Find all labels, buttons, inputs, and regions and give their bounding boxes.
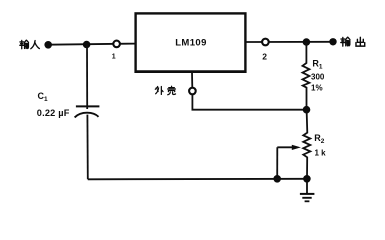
node: junction R1 / R2 / case wire [303, 106, 311, 114]
node: junction R2 / ground [303, 175, 311, 183]
svg-text:C1: C1 [38, 91, 49, 103]
svg-text:300: 300 [311, 73, 325, 82]
node: junction wiper / ground rail [273, 175, 281, 183]
wire: wiper return to ground rail [276, 147, 278, 179]
ground [300, 179, 315, 202]
wire: ground rail [88, 178, 307, 181]
wire: input rail to LM109 pin 1 [48, 44, 136, 45]
potentiometer R2 [303, 110, 310, 179]
wire: C1 bottom plate to ground rail [86, 115, 88, 180]
svg-text:1: 1 [112, 54, 116, 61]
svg-text:1 k: 1 k [315, 149, 327, 158]
svg-text:LM109: LM109 [175, 37, 207, 48]
node: output terminal [329, 38, 336, 45]
regulator U1 LM109 box [136, 13, 246, 71]
svg-text:2: 2 [262, 52, 267, 62]
wire: junction to C1 top plate [86, 45, 88, 107]
wire: case terminal to R1/R2 junction [192, 94, 306, 109]
capacitor C1 [75, 106, 100, 117]
pin 2 terminal circle of LM109 [262, 39, 269, 46]
svg-text:R1: R1 [312, 58, 323, 70]
label 外壳 (case) [155, 86, 175, 95]
label 输出 (output) [341, 37, 365, 46]
resistor R1 [303, 42, 310, 110]
node: input terminal [44, 41, 52, 49]
wire: LM109 case stub [191, 72, 193, 88]
pin 1 terminal circle of LM109 [113, 41, 120, 48]
svg-text:0.22 µF: 0.22 µF [37, 108, 70, 118]
wire: LM109 pin 2 to output terminal [246, 41, 334, 43]
case terminal circle [189, 88, 196, 95]
wiper arrow of R2 [277, 146, 294, 148]
label 输入 (input) [20, 40, 40, 49]
svg-text:1%: 1% [311, 84, 323, 93]
node: junction of output rail and R1 [303, 38, 311, 46]
node: junction of input rail and C1 branch [83, 41, 91, 49]
svg-text:R2: R2 [314, 133, 325, 145]
